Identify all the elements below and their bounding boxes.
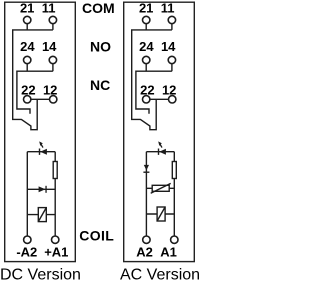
svg-text:AC Version: AC Version bbox=[120, 267, 200, 282]
svg-text:A2: A2 bbox=[136, 245, 153, 260]
svg-text:COIL: COIL bbox=[79, 227, 114, 243]
svg-text:A1: A1 bbox=[160, 245, 177, 260]
svg-text:NC: NC bbox=[90, 77, 110, 93]
svg-text:DC Version: DC Version bbox=[0, 267, 81, 282]
svg-text:-A2: -A2 bbox=[16, 245, 37, 260]
svg-text:+A1: +A1 bbox=[44, 245, 68, 260]
svg-text:NO: NO bbox=[90, 39, 111, 55]
svg-text:COM: COM bbox=[82, 0, 115, 16]
